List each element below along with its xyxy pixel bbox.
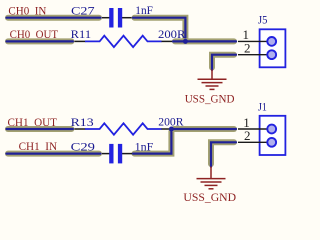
ground USS_GND (bottom): [197, 167, 226, 189]
svg-text:R11: R11: [71, 29, 92, 41]
capacitor C29: [102, 144, 132, 164]
wire J1 pin 2 to ground: [211, 142, 236, 167]
resistor R11: [74, 36, 172, 47]
capacitor C27: [102, 8, 132, 28]
svg-text:C29: C29: [71, 141, 96, 153]
svg-text:USS_GND: USS_GND: [183, 192, 236, 204]
svg-text:1nF: 1nF: [135, 141, 154, 153]
svg-text:2: 2: [244, 128, 251, 143]
ground USS_GND (top): [198, 70, 227, 90]
wire CH1_OUT bus bar: [7, 126, 73, 132]
junction node CH1: [169, 127, 174, 132]
svg-text:USS_GND: USS_GND: [185, 93, 235, 105]
wire C27 output to junction: [133, 18, 185, 42]
svg-text:J5: J5: [258, 14, 268, 26]
connector J1: [238, 116, 285, 155]
junction node CH0: [183, 39, 188, 44]
svg-text:J1: J1: [258, 102, 267, 114]
resistor R13: [74, 123, 172, 134]
wire junction to J1 pin 1: [172, 126, 236, 132]
wire J5 pin 2 to ground: [212, 55, 236, 70]
connector J5: [238, 29, 285, 67]
wire C29 output to junction: [133, 129, 171, 154]
wire CH1_IN bus bar: [7, 151, 101, 157]
wire R11 output to J5 pin 1: [173, 38, 236, 44]
svg-text:C27: C27: [71, 5, 95, 17]
svg-text:R13: R13: [71, 117, 94, 129]
wire CH0_IN bus bar: [7, 15, 101, 21]
wire CH0_OUT bus bar: [7, 38, 73, 44]
svg-text:2: 2: [244, 41, 251, 56]
